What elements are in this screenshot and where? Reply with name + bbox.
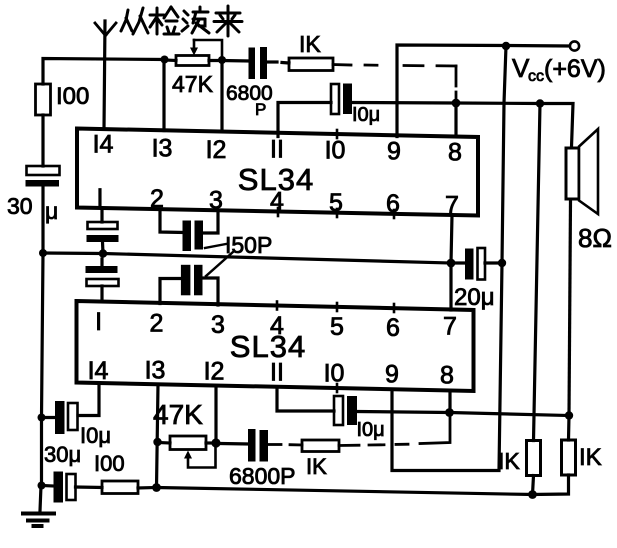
svg-text:I: I (95, 308, 102, 336)
resistor 100 (bottom, horizontal) (102, 481, 138, 494)
ground (23, 514, 54, 527)
node bottom-left junction (152, 483, 161, 492)
node pot1 left junction (161, 56, 169, 64)
U2 pin number labels bottom row 14 13 12 11 10 9 8 (88, 357, 454, 390)
capacitor 10u (bottom left, electrolytic) (42, 401, 78, 434)
label 150P with leader lines (205, 232, 272, 276)
wire Vcc rail to terminal (506, 44, 569, 48)
svg-text:I00: I00 (56, 83, 89, 110)
svg-text:5: 5 (329, 189, 343, 217)
wire 10u to pin8 node and right 1K top junction (357, 412, 569, 416)
title 从检波来 (hand strokes) (121, 6, 242, 36)
svg-text:2: 2 (150, 185, 164, 213)
wire speaker bottom lead down to bottom-right bus (569, 200, 571, 416)
wire U2 pin 7 up to mid bus (449, 263, 452, 310)
svg-text:30μ: 30μ (44, 442, 81, 467)
op-amp U2 SL34 (lower IC body) (77, 301, 474, 391)
wire dashed feedback to U2 pin8 node (339, 413, 450, 446)
wire 6800P to dashed feedback line (267, 60, 277, 63)
capacitor 10u (bottom right, electrolytic) (334, 396, 357, 425)
svg-text:2: 2 (150, 310, 164, 338)
svg-text:cc: cc (528, 68, 544, 85)
wire ground stem (40, 486, 41, 512)
wire input vertical to U1 pin 14 (104, 21, 105, 129)
svg-text:I2: I2 (206, 136, 227, 164)
svg-text:SL34: SL34 (230, 329, 306, 364)
U2 pin stubs (unconnected pins 4,5,6 top and 10 bottom) (277, 302, 394, 393)
input arrow (from detector) (95, 23, 116, 36)
svg-text:IK: IK (299, 31, 321, 57)
wire pin8-node vertical down to left 1K (534, 104, 541, 441)
node mid-bus left junction (39, 249, 47, 257)
wire dashed segment into 1K (282, 61, 289, 65)
resistor 1K (bottom right pair, left) (527, 441, 541, 495)
node right-1K top junction (565, 411, 573, 419)
wire U1 pin 11 riser to 10u (278, 103, 331, 137)
node Vcc junction (502, 42, 510, 50)
wire junction down to U1 pin 12 (220, 60, 223, 132)
node pot1 right junction (218, 56, 226, 64)
svg-text:30: 30 (7, 193, 33, 219)
capacitor 150P lower (181, 265, 203, 296)
wire pot1 to C 6800P (222, 59, 249, 63)
wire 30u down to mid-bus junction and below (41, 187, 44, 254)
svg-text:I3: I3 (152, 135, 173, 163)
node 10u-bottom junction (38, 414, 46, 422)
svg-text:9: 9 (387, 138, 401, 166)
potentiometer 47K (top) (165, 40, 223, 66)
svg-text:IK: IK (306, 454, 327, 479)
node U2 pin 8 junction (445, 408, 454, 417)
U2 pin number labels top row 1 2 3 4 5 6 7 (95, 308, 457, 342)
svg-text:6800P: 6800P (229, 463, 296, 489)
wire middle bus (mid junction to 20u) (43, 253, 451, 263)
capacitor 20u (electrolytic) (451, 248, 502, 280)
U1 pin stubs (unconnected pins 10,4,5,6) (278, 130, 394, 218)
svg-text:3: 3 (209, 187, 223, 215)
svg-text:I0: I0 (325, 137, 346, 165)
svg-text:8: 8 (440, 362, 454, 390)
wire U1 pin 1 lead (100, 208, 103, 222)
node pot2 left junction (153, 438, 161, 446)
svg-text:47K: 47K (172, 71, 214, 97)
svg-text:IK: IK (579, 444, 602, 471)
capacitor 150P upper (183, 221, 204, 252)
svg-text:I2: I2 (204, 358, 225, 386)
wire Vcc vertical rail down to U2 pin 9 elbow (392, 46, 506, 471)
wire top-left horizontal (input bus) (43, 59, 164, 85)
node speaker branch junction (536, 99, 544, 107)
svg-text:6: 6 (386, 314, 400, 342)
resistor 1K (top feedback) (289, 58, 333, 71)
wire U2 pin 13 down through pot2 junction to bottom bus (157, 385, 159, 488)
wire U1 pin 9 up to Vcc rail (397, 45, 506, 137)
wire 100 to bottom junction (138, 486, 156, 490)
wire from 100 down to 30u (41, 115, 44, 166)
op-amp U1 SL34 (upper IC body) (77, 129, 478, 216)
svg-text:20μ: 20μ (454, 284, 495, 311)
svg-text:7: 7 (443, 313, 457, 341)
wire U1 pin 7 down to mid bus (451, 216, 452, 264)
svg-text:5: 5 (330, 313, 344, 341)
capacitor electrolytic lower (pin1 chain) (86, 266, 119, 286)
capacitor 10u (top, electrolytic) (331, 84, 352, 115)
wire U1 pin 2 to 150P upper (160, 209, 183, 233)
terminal Vcc(+6V) (570, 41, 579, 50)
svg-text:I0: I0 (324, 360, 345, 388)
svg-text:9: 9 (385, 361, 399, 389)
wire U2 pin 11 elbow to 10u-bottom-right (277, 387, 334, 411)
svg-text:3: 3 (211, 311, 225, 339)
wire left vertical ground rail down (42, 253, 44, 486)
svg-text:I0μ: I0μ (352, 104, 380, 126)
wire bottom bus (157, 488, 533, 495)
node bottom bus right junction (528, 490, 537, 499)
wire U2 pin 14 elbow to 10u-bottom (78, 383, 99, 416)
svg-text:(+6V): (+6V) (544, 55, 606, 83)
svg-text:I4: I4 (93, 131, 114, 159)
svg-text:II: II (270, 136, 284, 164)
node pot2 right junction (211, 438, 220, 447)
wire junction down to U1 pin 13 (162, 60, 165, 131)
node 20u left junction (447, 259, 456, 268)
svg-text:II: II (270, 359, 284, 387)
resistor 1K (bottom right pair, right) (533, 416, 576, 495)
svg-text:6: 6 (386, 190, 400, 218)
svg-text:8: 8 (448, 139, 462, 167)
svg-text:I3: I3 (145, 357, 166, 385)
node 30u-bottom junction (38, 482, 46, 490)
svg-text:I4: I4 (88, 357, 109, 385)
svg-text:μ: μ (45, 198, 58, 224)
capacitor 30u (bottom left, electrolytic) (42, 472, 103, 503)
resistor 100 (top left, vertical) (36, 84, 51, 115)
potentiometer 47K (bottom) (158, 436, 217, 468)
svg-text:4: 4 (270, 188, 284, 216)
wire U2 pin 8 lead (448, 391, 451, 413)
svg-text:IK: IK (498, 448, 520, 474)
wire U2 pin 2 to 150P lower (160, 279, 181, 304)
U1 pin number labels bottom row 1 2 3 4 5 6 7 (97, 184, 459, 220)
wire cap to U2 pin 1 (100, 259, 103, 266)
svg-text:P: P (255, 100, 266, 119)
node pin1-chain mid junction (99, 249, 107, 257)
wire dashed feedback 1K to U1 pin8 node (333, 65, 456, 100)
wire 10u to pin8 node and speaker corner (352, 103, 573, 148)
wire U2 pin 12 down to pot2 right junction (214, 386, 217, 443)
capacitor 6800P (top) (249, 47, 268, 79)
capacitor 6800P (bottom) (248, 429, 268, 462)
svg-text:47K: 47K (153, 399, 203, 430)
svg-text:I00: I00 (94, 451, 125, 476)
node U1 pin 8 junction (452, 99, 461, 108)
wire pot2 to 6800P bottom (221, 442, 248, 446)
resistor 1K (bottom feedback) (302, 440, 339, 452)
node 20u right junction (498, 259, 506, 267)
capacitor 30u (top left, electrolytic) (26, 166, 60, 187)
wire cap to mid junction (101, 242, 105, 254)
U1 pin number labels top row 14 13 12 11 10 9 8 (93, 131, 462, 167)
svg-text:I0μ: I0μ (357, 419, 385, 441)
capacitor electrolytic upper (pin1 chain) (87, 222, 119, 242)
wire U2 pin 3 to 150P lower (203, 278, 219, 305)
svg-text:8Ω: 8Ω (578, 223, 612, 253)
svg-text:I0μ: I0μ (80, 423, 111, 448)
svg-text:4: 4 (270, 312, 284, 340)
wire U1 pin 8 lead (454, 103, 457, 137)
speaker 8ohm driver (566, 129, 598, 214)
wire U1 pin 3 to 150P upper (203, 211, 218, 234)
wire 6800P to dashed, into 1K bottom (268, 443, 302, 446)
